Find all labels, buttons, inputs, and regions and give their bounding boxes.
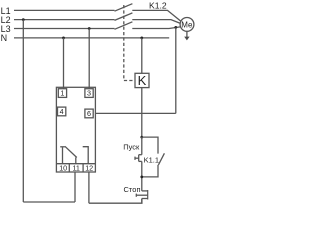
wire right column down [175, 27, 177, 113]
contact K1.2 pole on L2 [115, 13, 133, 21]
wire L2 bus right segment to motor [132, 20, 180, 24]
node junction L3 tap to pin 3 [88, 27, 91, 30]
push button Пуск (NO) [141, 137, 143, 155]
wire K1.1 lower [142, 165, 158, 177]
wire bottom run to pin 11 [23, 201, 75, 203]
contact K1.1 branch [142, 137, 158, 154]
wire Stop bottom [141, 199, 143, 204]
svg-text:K: K [138, 73, 147, 88]
svg-text:Ме: Ме [181, 20, 193, 29]
wire L1 bus right segment to motor [132, 10, 181, 21]
pin 6 terminal square [85, 109, 93, 118]
svg-text:N: N [1, 33, 8, 43]
wire left column L2 down [22, 20, 24, 202]
svg-text:1: 1 [60, 89, 64, 98]
wire L3 to pin 3 [88, 29, 90, 89]
node junction top of parallel branch [140, 136, 143, 139]
wire pin 12 drop [88, 172, 90, 203]
wire L3 bus left segment [14, 28, 115, 30]
wire pin 6 to right column [95, 112, 175, 114]
internal changeover contact: pin10 stub [62, 147, 64, 163]
pin 4 terminal square [58, 107, 66, 116]
node junction L3 tap near motor [174, 26, 177, 29]
pin11 stub [75, 157, 77, 163]
coil K box [135, 73, 149, 87]
svg-text:6: 6 [87, 109, 91, 118]
svg-text:4: 4 [60, 107, 64, 116]
svg-text:12: 12 [85, 164, 93, 173]
svg-text:K1.1: K1.1 [144, 155, 159, 164]
mechanical link dashed line to coil K [124, 5, 135, 81]
wire N to pin 1 [63, 38, 65, 89]
node junction bottom of parallel branch [140, 176, 143, 179]
pin 3 terminal square [85, 89, 93, 98]
pin12 fixed contact [83, 147, 89, 164]
wire L2 bus left segment [14, 19, 115, 21]
svg-text:Пуск: Пуск [123, 142, 140, 151]
contact K1.1 blade [158, 153, 164, 165]
svg-text:10: 10 [59, 164, 67, 173]
contact K1.2 pole on L1 [115, 4, 133, 12]
node junction N tap to pin 1 [62, 37, 65, 40]
push button Стоп (NC) [142, 190, 148, 192]
svg-text:Стоп: Стоп [124, 185, 141, 194]
svg-text:3: 3 [87, 89, 91, 98]
node junction L2 tap [22, 18, 25, 21]
motor M1 circle [180, 18, 194, 32]
wire L1 bus left segment [14, 9, 115, 11]
wire L3 bus right segment to motor [132, 27, 180, 29]
wire N to coil K [141, 38, 143, 73]
pin 1 terminal square [58, 89, 66, 98]
svg-text:11: 11 [72, 164, 79, 173]
device box U1 [56, 87, 95, 172]
wire pin 11 drop [74, 172, 76, 202]
wire bottom run pin12 to Stop [89, 199, 142, 204]
internal contact blade [65, 146, 77, 157]
svg-text:K1.2: K1.2 [149, 1, 167, 11]
contact K1.2 pole on L3 [115, 22, 133, 30]
wire coil to start branch [141, 88, 143, 138]
wire N bus [14, 37, 169, 39]
node junction N tap to coil [140, 37, 143, 40]
motor shaft arrow [186, 31, 188, 37]
terminal row divider [56, 163, 95, 165]
